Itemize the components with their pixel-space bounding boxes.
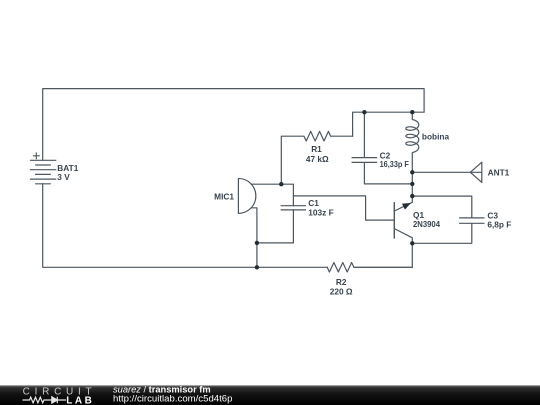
wire bottom rail from battery bottom to R2 left lead [43,184,328,267]
wire coil bottom to emitter junction [411,172,413,196]
svg-text:MIC1: MIC1 [214,191,234,201]
wire MIC1 bottom lead down to C1 bottom rail [251,208,257,267]
wire C1 bottom horizontal [257,210,294,243]
capacitor C1 [281,206,305,210]
svg-text:220 Ω: 220 Ω [330,287,353,297]
resistor R1 [281,131,352,184]
node C2 top junction [362,110,366,114]
svg-text:R2: R2 [336,277,347,287]
node collector junction [410,241,414,245]
logo resistor and diode [23,397,67,404]
node bottom rail junction [255,265,259,269]
wire antenna feed [412,171,470,173]
svg-text:3 V: 3 V [57,172,70,182]
wire R2 right lead up to emitter junction [354,243,412,267]
node emitter junction [410,194,414,198]
node MIC1 bottom junction [255,241,259,245]
antenna ANT1 [470,162,482,182]
transistor Q1 emitter arrow [402,203,411,210]
wire top rail from battery to top-right corner [43,89,424,161]
svg-text:103z F: 103z F [308,208,333,218]
svg-text:16,33p F: 16,33p F [380,159,409,169]
wire C1 tap to Q1 base [293,196,394,220]
svg-text:47 kΩ: 47 kΩ [306,154,329,164]
capacitor C2 [352,112,412,184]
node C2 bottom junction [410,182,414,186]
svg-text:ANT1: ANT1 [488,168,510,178]
node MIC1 top junction [279,182,283,186]
battery BAT1 plates [31,160,56,184]
svg-text:bobina: bobina [422,132,450,142]
inductor bobina [406,112,419,172]
transistor Q1 [393,203,395,238]
node antenna junction [410,170,414,174]
microphone MIC1 body [238,178,255,213]
capacitor C3 [412,196,484,243]
svg-text:LAB: LAB [66,396,94,405]
resistor R2 [327,263,412,273]
svg-text:2N3904: 2N3904 [413,219,440,229]
svg-text:http://circuitlab.com/c5d4t6p: http://circuitlab.com/c5d4t6p [113,393,232,404]
svg-text:R1: R1 [311,144,322,154]
node coil top junction [410,110,414,114]
svg-text:6,8p F: 6,8p F [487,220,511,230]
wire MIC1 top lead to C1 top [251,184,293,206]
battery plus sign [33,153,39,159]
